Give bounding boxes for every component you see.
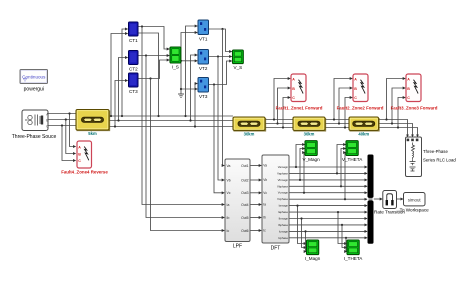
wire fault4 tap A (70, 114, 76, 147)
node junction bus C CT3 (114, 125, 116, 127)
svg-text:B: B (292, 87, 295, 91)
svg-text:Vcphase: Vcphase (277, 197, 288, 201)
svg-text:DFT: DFT (271, 246, 281, 252)
node junction VT1 out (221, 28, 223, 30)
svg-text:Continuous: Continuous (22, 75, 46, 80)
wire rate transition to workspace (397, 198, 404, 200)
node junction I_THETA 1 (337, 211, 339, 213)
wire DFT out3 to mux (289, 179, 367, 181)
svg-text:Iamagn: Iamagn (279, 204, 289, 208)
node junction I_Magn 2 (300, 217, 302, 219)
svg-text:Ib: Ib (263, 216, 266, 220)
V_Magn scope (303, 141, 321, 162)
svg-text:Ibmagn: Ibmagn (279, 217, 289, 221)
powergui block (20, 70, 48, 93)
svg-text:Icphase: Icphase (278, 236, 288, 240)
wire fault2 tap C (345, 98, 352, 128)
LPF block (225, 159, 250, 250)
wire fault1 tap A (274, 79, 290, 120)
wire LPF out3 to DFT (250, 192, 261, 194)
wire fault3 tap A (387, 79, 406, 120)
node junction V_Magn 1 (295, 166, 297, 168)
node junction bus C fault2 (344, 126, 346, 128)
node junction CT2 out (145, 54, 147, 56)
wire bus B line2 to line3 (265, 123, 293, 125)
node junction bus C fault3 (397, 126, 399, 128)
svg-text:40km: 40km (358, 132, 369, 137)
node junction bus A CT1 (121, 115, 123, 117)
wire mux output (374, 198, 382, 200)
wire bus B line3 to line4 (325, 123, 349, 125)
svg-text:Out6: Out6 (241, 229, 248, 233)
DFT block (262, 155, 289, 252)
wire Ic line to LPF (151, 79, 225, 231)
V_THETA scope (342, 141, 363, 162)
wire DFT out1 to mux (289, 166, 367, 168)
fault block Fault2_Zone2 Forward (353, 74, 368, 102)
wire fault1 tap B (278, 88, 291, 124)
svg-text:Out4: Out4 (241, 203, 248, 207)
wire VT3 neutral stub (181, 88, 197, 90)
wire bus A line1 to line2 (109, 115, 233, 117)
svg-text:V_Magn: V_Magn (303, 157, 321, 162)
wire LPF out2 to DFT (250, 179, 261, 181)
wire V_THETA input 2 (341, 149, 346, 187)
svg-text:I_Magn: I_Magn (305, 256, 321, 261)
VT1 (198, 20, 209, 42)
wire VT3 input tap (195, 84, 197, 127)
node junction VT2 neutral (180, 60, 182, 62)
svg-text:Three-Phase: Three-Phase (423, 149, 448, 154)
svg-text:Ia: Ia (263, 203, 266, 207)
fault block Fault4_Zone4 Reverse (77, 141, 92, 168)
wire DFT out12 to mux (289, 237, 367, 239)
wire DFT out2 to mux (289, 172, 367, 174)
node junction bus C VT3 (194, 125, 196, 127)
CT3 (129, 73, 139, 94)
svg-text:I_THETA: I_THETA (344, 256, 363, 261)
svg-text:Ic: Ic (263, 229, 266, 233)
svg-text:C: C (407, 96, 410, 100)
svg-text:Fault3_Zone3 Forward: Fault3_Zone3 Forward (391, 105, 438, 110)
wire CT3 input tap (115, 81, 128, 127)
wire I_THETA input 1 (338, 212, 347, 243)
svg-text:VT1: VT1 (199, 37, 208, 42)
wire V_Magn input 1 (296, 145, 305, 168)
svg-text:VT2: VT2 (199, 66, 208, 71)
node junction bus A VT1 (184, 115, 186, 117)
wire CT1 input tap (122, 29, 128, 116)
node junction bus B VT2 (189, 119, 191, 121)
node junction I_THETA 3 (345, 237, 347, 239)
wire V_Magn input 3 (303, 153, 306, 193)
wire fault1 tap C (283, 98, 290, 128)
mux (368, 155, 374, 198)
wire bus C line2 to line3 (265, 127, 293, 129)
svg-text:5km: 5km (88, 131, 97, 136)
svg-text:LPF: LPF (233, 244, 242, 250)
node junction I_Magn 3 (304, 230, 306, 232)
node junction VT3 out (213, 83, 215, 85)
wire I_Magn input 2 (302, 219, 307, 248)
wire Ib line to LPF (146, 56, 224, 218)
node junction bus B CT2 (117, 119, 119, 121)
wire bus C line3 to line4 (325, 127, 349, 129)
VT2 (198, 50, 209, 72)
wire fault2 tap B (339, 88, 352, 124)
wire bus A line2 to line3 (265, 119, 293, 121)
wire DFT out8 to mux (289, 211, 367, 213)
svg-text:C: C (78, 159, 81, 163)
node junction VT3 neutral (180, 88, 182, 90)
svg-text:To Workspace: To Workspace (400, 207, 429, 212)
line block 30km A (233, 117, 266, 137)
wire V_THETA input 3 (344, 153, 347, 200)
svg-text:CT1: CT1 (129, 38, 138, 43)
svg-text:Out1: Out1 (241, 164, 248, 168)
svg-text:A: A (292, 78, 295, 82)
node junction V_Magn 2 (299, 179, 301, 181)
wire Vb line to LPF (218, 57, 224, 181)
wire fault4 tap B (66, 120, 76, 154)
wire fault4 tap C (62, 126, 76, 161)
wire bus B line1 to line2 (109, 120, 233, 122)
line block 30km B (293, 117, 326, 137)
svg-text:Series RLC Load: Series RLC Load (423, 157, 456, 162)
node junction I_THETA 2 (341, 224, 343, 226)
fault block Fault1_Zone1 Forward (291, 74, 306, 102)
rate transition block (374, 191, 405, 215)
line block 5km (76, 110, 110, 137)
wire VT2 neutral stub (181, 60, 197, 62)
wire DFT out7 to mux (289, 205, 367, 207)
svg-text:Vb: Vb (263, 178, 267, 182)
wire DFT out9 to mux (289, 218, 367, 220)
CT2 (129, 51, 139, 72)
wire bus C source to line1 (48, 125, 76, 127)
svg-text:B: B (46, 118, 48, 122)
svg-text:simout: simout (408, 197, 422, 202)
wire bus A line3 to line4 (325, 119, 349, 121)
svg-text:V_S: V_S (234, 65, 243, 70)
svg-text:Fault4_Zone4 Reverse: Fault4_Zone4 Reverse (61, 169, 108, 174)
VT3 (198, 78, 209, 100)
svg-text:30km: 30km (244, 132, 255, 137)
svg-text:C: C (292, 96, 295, 100)
node junction bus B fault4 (65, 118, 67, 120)
node junction CT3 out (149, 77, 151, 79)
node junction V_Magn 3 (303, 192, 305, 194)
svg-text:VT3: VT3 (199, 94, 208, 99)
svg-text:Ibphase: Ibphase (278, 223, 288, 227)
node junction bus C fault1 (282, 126, 284, 128)
wire fault2 tap A (334, 79, 352, 120)
wire CT3 out to I_S (138, 60, 169, 79)
wire Vc line to LPF (214, 85, 224, 193)
wire LPF out6 to DFT (250, 230, 261, 232)
svg-text:B: B (78, 152, 81, 156)
svg-text:30km: 30km (304, 132, 315, 137)
wire CT1 out to I_S (138, 27, 169, 50)
svg-text:Va: Va (227, 164, 231, 168)
wire VT1 input tap (186, 26, 198, 116)
ground (178, 94, 184, 98)
svg-text:Vbmagn: Vbmagn (278, 178, 289, 182)
wire V_THETA input 1 (337, 145, 346, 174)
wire bus A source to line1 (48, 113, 76, 115)
node junction V_THETA 1 (336, 172, 338, 174)
wire Ia line to LPF (142, 27, 224, 205)
svg-text:Ia: Ia (227, 203, 230, 207)
line block 40km (349, 117, 379, 137)
wire LPF out1 to DFT (250, 165, 261, 167)
wire VT2 input tap (191, 55, 198, 121)
svg-text:Fault1_Zone1 Forward: Fault1_Zone1 Forward (276, 105, 323, 110)
node junction bus C fault4 (61, 124, 63, 126)
wire CT2 input tap (119, 58, 128, 121)
svg-text:Vcmagn: Vcmagn (278, 191, 289, 195)
wire CT1 return tap (111, 34, 128, 117)
node junction bus B fault3 (391, 122, 393, 124)
svg-text:Vc: Vc (227, 191, 231, 195)
wire DFT out4 to mux (289, 185, 367, 187)
node junction bus A fault3 (385, 118, 387, 120)
wire I_Magn input 3 (305, 231, 308, 251)
wire LPF out5 to DFT (250, 217, 261, 219)
wire fault3 tap B (392, 88, 405, 124)
node junction bus B fault1 (276, 122, 278, 124)
svg-text:Out2: Out2 (241, 178, 248, 182)
wire I_Magn input 1 (298, 206, 307, 244)
wire LPF out4 to DFT (250, 204, 261, 206)
wire VT neutral chain (181, 33, 197, 95)
wire load phase A (378, 120, 408, 137)
wire DFT out11 to mux (289, 230, 367, 232)
svg-text:Vbphase: Vbphase (277, 184, 288, 188)
wire CT2 out to I_S (138, 55, 169, 57)
wire bus C line1 to line2 (109, 126, 233, 128)
wire Va line to LPF (223, 29, 225, 166)
node junction bus B fault2 (338, 122, 340, 124)
svg-text:Vb: Vb (227, 178, 231, 182)
I_S scope (170, 47, 181, 69)
svg-text:V_THETA: V_THETA (342, 157, 363, 162)
svg-text:C: C (354, 96, 357, 100)
svg-text:B: B (407, 87, 410, 91)
CT1 (129, 22, 139, 43)
node junction V_THETA 3 (344, 198, 346, 200)
svg-text:Out3: Out3 (241, 191, 248, 195)
svg-text:A: A (354, 78, 357, 82)
wire DFT out6 to mux (289, 198, 367, 200)
to workspace block (400, 193, 429, 213)
svg-text:CT2: CT2 (129, 67, 138, 72)
svg-text:Vc: Vc (263, 191, 267, 195)
svg-text:I_S: I_S (172, 64, 179, 69)
svg-text:A: A (78, 146, 81, 150)
svg-text:Out5: Out5 (241, 216, 248, 220)
svg-text:Ic: Ic (227, 229, 230, 233)
I_Magn scope (305, 240, 321, 261)
wire I_THETA input 3 (345, 238, 348, 252)
node junction VT2 out (217, 55, 219, 57)
svg-text:Va: Va (263, 164, 267, 168)
svg-text:Icmagn: Icmagn (279, 229, 289, 233)
wire VT1 out to V_S (209, 29, 232, 52)
svg-text:powergui: powergui (24, 87, 44, 93)
I_THETA scope (344, 240, 363, 261)
node junction bus A fault2 (333, 118, 335, 120)
wire V_Magn input 2 (300, 149, 305, 180)
node junction bus A fault4 (68, 112, 70, 114)
svg-text:Vamagn: Vamagn (278, 165, 289, 169)
fault block Fault3_Zone3 Forward (406, 74, 421, 102)
three-phase series RLC load (406, 137, 457, 177)
wire CT1 secondary return (138, 33, 159, 116)
node junction bus A fault1 (273, 118, 275, 120)
svg-text:CT3: CT3 (129, 89, 138, 94)
svg-text:B: B (354, 87, 357, 91)
wire load phase B (378, 124, 413, 137)
node junction V_THETA 2 (340, 185, 342, 187)
wire VT2 out to V_S (209, 56, 232, 58)
wire DFT out10 to mux (289, 224, 367, 226)
V_S scope (233, 50, 244, 70)
wire bus B source to line1 (48, 119, 76, 121)
wire fault3 tap C (398, 98, 405, 128)
wire load phase C (378, 128, 418, 137)
svg-text:Three-Phase Souce: Three-Phase Souce (12, 134, 57, 140)
node junction CT1 out (141, 25, 143, 27)
three-phase source (12, 110, 57, 140)
svg-text:Ib: Ib (227, 216, 230, 220)
node junction I_Magn 1 (296, 205, 298, 207)
svg-text:A: A (407, 78, 410, 82)
wire DFT out5 to mux (289, 192, 367, 194)
svg-text:Iaphase: Iaphase (278, 210, 288, 214)
svg-text:Vaphase: Vaphase (277, 171, 288, 175)
wire I_THETA input 2 (342, 225, 347, 248)
node junction bus A CT1 return (110, 115, 112, 117)
wire VT3 out to V_S (209, 61, 232, 85)
node junction CT1 return bus (157, 115, 159, 117)
svg-text:Fault2_Zone2 Forward: Fault2_Zone2 Forward (337, 105, 384, 110)
